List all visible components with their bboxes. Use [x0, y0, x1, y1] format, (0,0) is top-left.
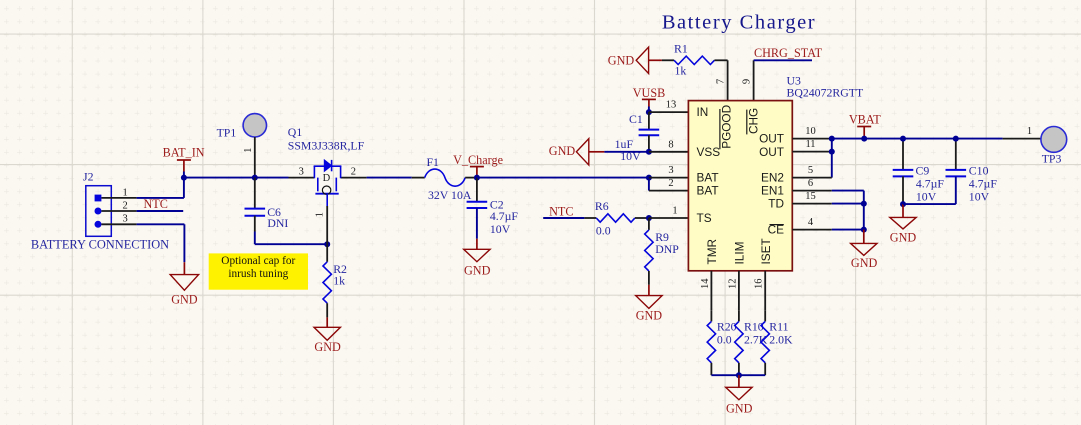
wire C9 gnd stub: [902, 204, 904, 217]
svg-text:3: 3: [299, 166, 304, 177]
wire EN1 vertical: [863, 191, 865, 230]
pin name CE with overline: [768, 223, 785, 237]
svg-text:13: 13: [666, 100, 677, 111]
wire EN2 pin5: [792, 165, 832, 177]
test point TP3: [1003, 126, 1067, 152]
wire OUT vertical: [831, 139, 833, 178]
wire TD pin15: [792, 191, 864, 203]
label C2: [490, 198, 519, 236]
svg-text:DNI: DNI: [267, 216, 288, 230]
label BATTERY CONNECTION: [31, 237, 169, 251]
capacitor C10: [903, 139, 966, 205]
designator R9: [655, 230, 679, 256]
svg-text:GND: GND: [726, 401, 753, 415]
svg-text:0.0: 0.0: [596, 223, 611, 237]
ground VSS: [549, 139, 605, 165]
power port VUSB: [633, 86, 666, 112]
pin name CHG with overline: [746, 108, 760, 135]
svg-text:GND: GND: [464, 264, 491, 278]
designator TP1: [217, 125, 237, 139]
wire pin 12: [727, 271, 739, 311]
svg-text:R6: R6: [595, 199, 609, 213]
svg-text:0.0: 0.0: [717, 333, 732, 347]
wire NTC stub: [543, 217, 584, 219]
svg-text:DNP: DNP: [655, 242, 679, 256]
svg-text:OUT: OUT: [759, 145, 784, 159]
svg-text:1: 1: [122, 187, 127, 198]
svg-text:EN2: EN2: [761, 171, 784, 185]
ground C9: [890, 217, 917, 244]
pin name VSS: [697, 145, 721, 159]
svg-text:BQ24072RGTT: BQ24072RGTT: [787, 85, 864, 99]
node TP1 junction: [252, 175, 258, 181]
svg-text:R11: R11: [769, 319, 788, 333]
svg-text:1k: 1k: [675, 64, 687, 78]
svg-text:11: 11: [805, 139, 815, 150]
wire EN1 pin6: [792, 178, 864, 190]
svg-text:IN: IN: [697, 105, 709, 119]
wire VSS: [604, 151, 649, 153]
svg-text:8: 8: [668, 139, 673, 150]
resistor R9: [645, 218, 653, 296]
svg-text:1k: 1k: [333, 273, 345, 287]
designator R10: [744, 319, 768, 346]
svg-text:TS: TS: [697, 211, 712, 225]
power port BAT_IN: [163, 145, 205, 177]
svg-text:GND: GND: [636, 308, 663, 322]
capacitor C9: [893, 139, 914, 205]
svg-text:C9: C9: [916, 163, 930, 177]
svg-text:1: 1: [243, 148, 254, 153]
svg-text:GND: GND: [171, 292, 198, 306]
svg-text:10: 10: [805, 126, 816, 137]
svg-text:TMR: TMR: [705, 239, 719, 265]
svg-text:16: 16: [754, 279, 765, 290]
wire J2 pin3 to GND: [137, 224, 185, 274]
label C10: [969, 163, 998, 203]
wire BAT pin2: [649, 190, 689, 192]
pin name BAT a: [697, 171, 719, 185]
pin name EN1: [761, 184, 784, 198]
svg-text:TP3: TP3: [1042, 152, 1062, 166]
svg-text:5: 5: [808, 165, 813, 176]
svg-text:2: 2: [351, 166, 356, 177]
svg-text:D: D: [323, 173, 331, 184]
wire Q1 to F1: [367, 177, 412, 179]
capacitor C6: [245, 178, 266, 245]
resistor R1: [662, 56, 728, 64]
svg-text:SSM3J338R,LF: SSM3J338R,LF: [288, 139, 365, 153]
svg-text:VUSB: VUSB: [633, 86, 666, 100]
svg-text:7: 7: [715, 79, 726, 84]
svg-text:Optional cap for: Optional cap for: [221, 255, 295, 267]
designator R11: [769, 319, 793, 346]
node pin15 junction: [861, 201, 867, 207]
svg-text:OUT: OUT: [759, 132, 784, 146]
svg-text:inrush tuning: inrush tuning: [228, 268, 288, 280]
resistor R11: [761, 310, 769, 375]
svg-text:J2: J2: [83, 170, 94, 184]
svg-text:BAT: BAT: [697, 184, 719, 198]
power port V_Charge: [453, 153, 503, 178]
svg-text:3: 3: [668, 165, 673, 176]
resistor R20: [707, 310, 715, 375]
wire TS pin1: [649, 217, 689, 219]
transistor Q1 body: [314, 160, 342, 195]
svg-text:4.7µF: 4.7µF: [490, 209, 519, 223]
designator TP3: [1042, 152, 1062, 166]
svg-text:C1: C1: [629, 112, 643, 126]
capacitor C2: [467, 178, 488, 250]
wire C6 to gate node: [255, 243, 327, 245]
resistor R6: [584, 214, 649, 222]
svg-text:1: 1: [1027, 126, 1032, 137]
label CHRG_STAT: [754, 46, 823, 60]
svg-text:CHG: CHG: [746, 108, 760, 134]
transistor Q1 gate pin: [315, 194, 328, 245]
designator U3: [787, 74, 802, 88]
connector J2: [86, 186, 137, 237]
svg-text:15: 15: [805, 191, 816, 202]
svg-text:2: 2: [122, 201, 127, 212]
svg-text:PGOOD: PGOOD: [720, 105, 734, 149]
value 1k: [675, 64, 687, 78]
capacitor C1: [639, 112, 660, 152]
svg-text:VBAT: VBAT: [849, 112, 881, 126]
svg-text:ILIM: ILIM: [732, 242, 746, 265]
wire V_Charge to BAT node: [477, 177, 649, 179]
value 32V 10A: [428, 188, 472, 202]
designator Q1: [288, 125, 303, 139]
svg-text:GND: GND: [608, 53, 635, 67]
svg-text:6: 6: [808, 178, 813, 189]
designator R1: [674, 42, 688, 56]
svg-text:12: 12: [727, 279, 738, 290]
node BAT_IN junction: [181, 175, 187, 181]
ground near R1: [608, 47, 662, 73]
pin name PGOOD with overline: [720, 105, 734, 149]
wire J2 pin2 NTC stub: [137, 210, 184, 212]
pin name BAT b: [697, 184, 719, 198]
node pin4 junction: [861, 227, 867, 233]
svg-text:C10: C10: [969, 163, 989, 177]
wire pin 16: [754, 271, 766, 311]
node BAT junction: [646, 175, 652, 181]
svg-text:BATTERY CONNECTION: BATTERY CONNECTION: [31, 237, 169, 251]
wire pin7: [715, 60, 727, 100]
svg-text:TD: TD: [768, 197, 784, 211]
wire bottom gnd stub: [738, 375, 740, 387]
pin name TMR: [705, 239, 719, 265]
ground EN1 TD CE: [851, 243, 878, 270]
node gate junction: [324, 241, 330, 247]
svg-text:4: 4: [808, 217, 814, 228]
wire CE pin4: [792, 217, 864, 229]
svg-text:TP1: TP1: [217, 125, 237, 139]
ground J2: [170, 275, 198, 307]
resistor R2: [323, 244, 347, 327]
wire BAT pin3: [649, 177, 689, 179]
node TS junction: [646, 215, 652, 221]
power port VBAT: [849, 112, 881, 138]
ground C2: [464, 249, 491, 277]
transistor Q1 pin 3: [289, 166, 315, 177]
resistor R10: [735, 310, 743, 375]
svg-text:R1: R1: [674, 42, 688, 56]
fuse F1: [412, 169, 477, 186]
node pin10 junction: [829, 136, 835, 142]
wire BAT rail to Q1: [184, 177, 289, 179]
pin number 13: [666, 100, 677, 111]
svg-text:BAT_IN: BAT_IN: [163, 145, 205, 159]
pin name TS: [697, 211, 712, 225]
wire OUT pin11: [792, 139, 832, 151]
node C9 top junction: [900, 136, 906, 142]
svg-text:Battery Charger: Battery Charger: [662, 11, 816, 33]
svg-text:10V: 10V: [916, 189, 937, 203]
value BQ24072RGTT: [787, 85, 864, 99]
ground R9: [636, 296, 663, 323]
note optional cap: [209, 253, 308, 289]
designator J2: [83, 170, 94, 184]
svg-text:2.0K: 2.0K: [769, 333, 793, 347]
label NTC right: [549, 205, 573, 219]
designator R6: [595, 199, 609, 213]
label C6: [267, 205, 288, 230]
pin name ILIM: [732, 242, 746, 265]
node bottom junction: [736, 372, 742, 378]
op-amp U3 body: [688, 101, 792, 271]
wire J2 pin1 to BAT_IN node: [137, 178, 184, 198]
node C10 top junction: [953, 136, 959, 142]
svg-text:EN1: EN1: [761, 184, 784, 198]
svg-text:GND: GND: [890, 230, 917, 244]
ground bottom: [726, 387, 753, 415]
node V_Charge junction: [474, 175, 480, 181]
svg-text:ISET: ISET: [759, 238, 773, 264]
svg-text:F1: F1: [427, 155, 440, 169]
svg-text:NTC: NTC: [549, 205, 573, 219]
svg-text:GND: GND: [851, 256, 878, 270]
svg-text:BAT: BAT: [697, 171, 719, 185]
wire VSS pin8: [649, 151, 689, 153]
svg-text:14: 14: [700, 278, 711, 289]
svg-text:10V: 10V: [969, 189, 990, 203]
value SSM3J338R,LF: [288, 139, 365, 153]
test point TP1: [243, 114, 267, 178]
wire pin9 CHRG_STAT: [741, 60, 812, 100]
svg-text:NTC: NTC: [144, 197, 168, 211]
transistor Q1 pin 2: [341, 166, 367, 177]
svg-text:1: 1: [315, 212, 326, 217]
node VSS junction: [646, 149, 652, 155]
svg-text:GND: GND: [314, 340, 341, 354]
svg-text:VSS: VSS: [697, 145, 721, 159]
node VBAT junction: [861, 136, 867, 142]
wire IN pin13: [649, 111, 689, 113]
pin name ISET: [759, 238, 773, 264]
svg-text:V_Charge: V_Charge: [453, 153, 503, 167]
pin name OUT b: [759, 145, 784, 159]
svg-text:3: 3: [122, 214, 127, 225]
pin number 3: [668, 165, 673, 176]
wire bottom common: [711, 374, 765, 376]
pin name OUT a: [759, 132, 784, 146]
label C1: [615, 112, 643, 163]
svg-text:GND: GND: [549, 144, 576, 158]
node VUSB junction: [646, 109, 652, 115]
node pin11 junction: [829, 149, 835, 155]
svg-text:CHRG_STAT: CHRG_STAT: [754, 46, 823, 60]
svg-text:R20: R20: [717, 319, 737, 333]
svg-text:2: 2: [668, 178, 673, 189]
value 0.0: [596, 223, 611, 237]
pin number 2: [668, 178, 673, 189]
wire VBAT rail: [832, 138, 1003, 140]
svg-text:Q1: Q1: [288, 125, 303, 139]
pin name TD: [768, 197, 784, 211]
label NTC left: [144, 197, 168, 211]
designator R20: [717, 319, 737, 346]
wire to GND stub right: [863, 230, 865, 244]
ground R2: [314, 327, 341, 354]
wire BAT vertical: [648, 178, 650, 191]
label C9: [916, 163, 945, 203]
pin name EN2: [761, 171, 784, 185]
svg-text:1: 1: [672, 206, 677, 217]
pin number 8: [668, 139, 673, 150]
pin name IN: [697, 105, 709, 119]
svg-text:9: 9: [741, 79, 752, 84]
designator F1: [427, 155, 440, 169]
node C9 junction: [900, 201, 906, 207]
title Battery Charger: [662, 11, 816, 33]
svg-text:10V: 10V: [490, 222, 511, 236]
pin number 1 TS: [672, 206, 677, 217]
wire pin 14: [700, 271, 712, 311]
svg-text:32V 10A: 32V 10A: [428, 188, 472, 202]
wire OUT pin10: [792, 126, 832, 138]
